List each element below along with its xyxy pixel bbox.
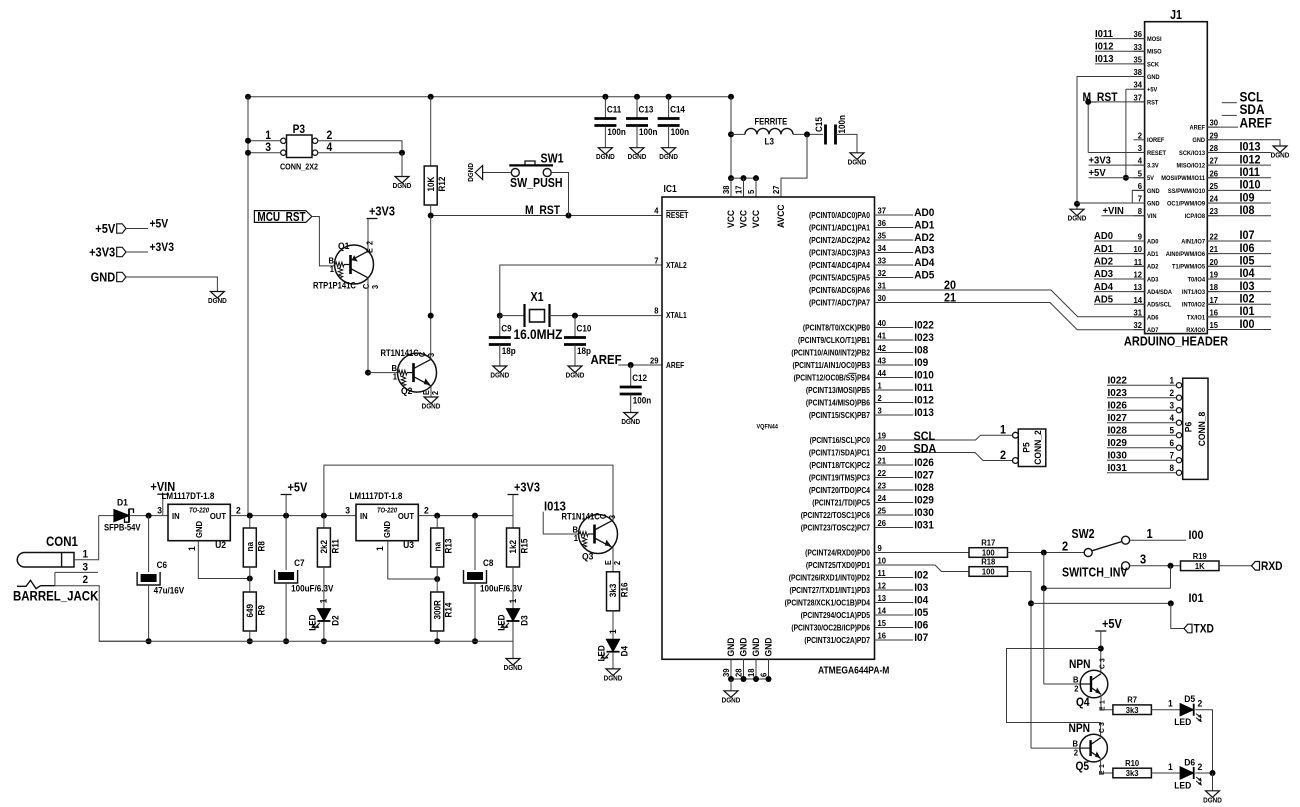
svg-text:Q5: Q5 <box>1076 760 1090 773</box>
svg-text:C15: C15 <box>814 117 825 132</box>
svg-text:na: na <box>245 542 256 552</box>
svg-text:AD3: AD3 <box>914 244 934 256</box>
svg-text:8: 8 <box>654 306 659 315</box>
IC U1 IC1 ATMEGA644PA-M body <box>662 197 875 659</box>
svg-text:I022: I022 <box>1108 375 1128 386</box>
svg-text:32: 32 <box>878 269 887 278</box>
wire net I01 <box>1207 316 1271 318</box>
svg-text:I028: I028 <box>1108 425 1128 436</box>
svg-text:D2: D2 <box>330 615 341 626</box>
wire Q2 base <box>368 372 398 374</box>
svg-text:AD0: AD0 <box>1147 238 1159 246</box>
LED D6 <box>1180 767 1193 779</box>
svg-text:10K: 10K <box>425 176 436 192</box>
svg-text:16.0MHZ: 16.0MHZ <box>514 326 563 342</box>
wire P3 pin1 <box>248 140 281 142</box>
svg-text:I07: I07 <box>914 632 928 644</box>
svg-text:16: 16 <box>878 631 887 640</box>
wire D3 to ground <box>512 622 514 659</box>
wire net I012 <box>1207 164 1271 166</box>
svg-text:MCU_RST: MCU_RST <box>257 211 305 224</box>
svg-text:(PCINT26/RXD1/INT0)PD2: (PCINT26/RXD1/INT0)PD2 <box>789 573 870 583</box>
svg-text:I02: I02 <box>1240 293 1255 306</box>
svg-text:X1: X1 <box>531 290 544 304</box>
svg-text:I03: I03 <box>914 582 928 594</box>
wire net AD0 <box>1094 240 1145 242</box>
svg-text:CONN_2: CONN_2 <box>1033 430 1044 465</box>
wire L3 to C15 <box>793 133 823 135</box>
svg-text:7: 7 <box>1169 450 1174 461</box>
svg-text:NPN: NPN <box>1069 722 1091 735</box>
svg-text:(PCINT28/XCK1/OC1B)PD4: (PCINT28/XCK1/OC1B)PD4 <box>785 598 871 608</box>
junction <box>472 638 478 644</box>
svg-text:ATMEGA644PA-M: ATMEGA644PA-M <box>818 665 890 676</box>
connector J1 ARDUINO_HEADER body <box>1145 22 1208 334</box>
svg-text:ARDUINO_HEADER: ARDUINO_HEADER <box>1124 334 1228 349</box>
svg-text:SW_PUSH: SW_PUSH <box>510 176 563 190</box>
wire <box>126 228 148 230</box>
svg-text:(PCINT21/TDI)PC5: (PCINT21/TDI)PC5 <box>812 498 870 508</box>
svg-text:DGND: DGND <box>1068 215 1087 223</box>
svg-text:GND: GND <box>1147 74 1160 82</box>
svg-text:I030: I030 <box>1108 450 1128 461</box>
svg-text:CONN_8: CONN_8 <box>1197 412 1208 447</box>
svg-text:DGND: DGND <box>596 154 615 162</box>
wire to ground <box>1212 773 1214 791</box>
svg-text:AD6: AD6 <box>1147 314 1159 322</box>
svg-text:I03: I03 <box>1240 280 1255 293</box>
svg-text:I026: I026 <box>914 457 934 469</box>
capacitor C11 100n <box>602 94 608 100</box>
wire AVCC feed <box>781 134 807 197</box>
svg-text:300R: 300R <box>432 600 443 619</box>
svg-text:AD0: AD0 <box>914 207 934 219</box>
svg-text:RXD: RXD <box>1261 560 1283 573</box>
svg-text:OUT: OUT <box>210 511 226 520</box>
capacitor C10 18p <box>574 316 576 338</box>
svg-text:AD5: AD5 <box>1094 294 1114 305</box>
svg-text:2: 2 <box>431 391 440 395</box>
junction <box>1041 585 1047 591</box>
svg-text:R14: R14 <box>443 602 454 617</box>
svg-text:GND: GND <box>383 521 392 538</box>
svg-text:29: 29 <box>1210 131 1219 140</box>
svg-text:(PCINT14/MISO)PB6: (PCINT14/MISO)PB6 <box>806 398 870 408</box>
svg-text:AD5: AD5 <box>914 269 934 281</box>
svg-text:22: 22 <box>878 469 887 478</box>
svg-text:IOREF: IOREF <box>1147 137 1165 145</box>
svg-text:25: 25 <box>1210 182 1219 191</box>
wire net I04 <box>1207 278 1271 280</box>
svg-text:35: 35 <box>1133 55 1142 64</box>
svg-text:30: 30 <box>878 294 887 303</box>
resistor R16 3k3 <box>607 572 620 611</box>
wire top rail <box>248 96 731 98</box>
svg-text:Q1: Q1 <box>338 241 349 252</box>
svg-text:8: 8 <box>1169 463 1174 474</box>
svg-text:5: 5 <box>1169 425 1174 436</box>
wire Q4 base <box>1044 683 1080 685</box>
svg-text:3: 3 <box>427 353 436 357</box>
svg-text:24: 24 <box>878 494 887 503</box>
wire Q2 emitter to ground <box>430 386 432 397</box>
svg-text:R16: R16 <box>619 582 630 597</box>
wire +5V stem <box>285 495 287 516</box>
wire <box>436 567 438 579</box>
wire net I012 <box>1095 50 1145 52</box>
regulator U2 LM1117DT-1.8 <box>168 504 230 540</box>
svg-text:2: 2 <box>236 505 241 516</box>
wire D1 to U2 <box>129 515 168 517</box>
wire net I023 <box>1107 397 1176 399</box>
svg-text:28: 28 <box>734 668 743 677</box>
svg-text:4: 4 <box>654 206 659 215</box>
junction <box>1210 770 1216 776</box>
wire <box>875 327 914 329</box>
svg-text:1: 1 <box>187 546 198 551</box>
svg-text:(PCINT4/ADC4)PA4: (PCINT4/ADC4)PA4 <box>809 261 871 271</box>
wire net I026 <box>1107 409 1176 411</box>
wire SW1 right to M_RST <box>551 173 568 216</box>
svg-text:(PCINT9/CLKO/T1)PB1: (PCINT9/CLKO/T1)PB1 <box>798 336 870 346</box>
svg-text:VCC: VCC <box>751 210 762 228</box>
resistor R17 100 <box>969 548 1008 558</box>
svg-text:3.3V: 3.3V <box>1147 162 1159 170</box>
svg-text:1: 1 <box>330 265 335 274</box>
svg-text:VIN: VIN <box>1147 213 1157 221</box>
svg-text:15: 15 <box>878 619 887 628</box>
svg-text:38: 38 <box>1133 68 1142 77</box>
svg-text:I029: I029 <box>1108 438 1128 449</box>
junction <box>245 138 251 144</box>
svg-text:I026: I026 <box>1108 400 1128 411</box>
svg-text:649: 649 <box>245 604 256 618</box>
wire R12 bottom <box>430 205 432 216</box>
svg-text:GND: GND <box>1147 200 1160 208</box>
junction <box>365 370 371 376</box>
wire D6 cathode <box>1195 772 1212 774</box>
svg-text:RESET: RESET <box>666 211 689 221</box>
svg-text:SWITCH_INV: SWITCH_INV <box>1062 566 1128 580</box>
svg-text:2: 2 <box>82 575 88 587</box>
svg-text:DGND: DGND <box>468 163 476 182</box>
wire net AD2 <box>1094 265 1145 267</box>
svg-text:23: 23 <box>1210 207 1219 216</box>
junction <box>146 638 152 644</box>
stub SDA <box>1222 114 1237 116</box>
svg-text:3k3: 3k3 <box>1126 706 1139 715</box>
svg-text:DGND: DGND <box>848 159 867 167</box>
svg-text:IC1: IC1 <box>664 183 677 194</box>
wire vertical +5V column <box>247 97 249 516</box>
svg-text:MISO: MISO <box>1147 48 1162 56</box>
svg-text:J1: J1 <box>1170 8 1182 22</box>
ground DGND C15 <box>850 153 864 160</box>
svg-text:R7: R7 <box>1127 695 1137 704</box>
wire net I09 <box>1207 202 1271 204</box>
svg-text:(PCINT6/ADC6)PA6: (PCINT6/ADC6)PA6 <box>809 286 870 296</box>
svg-text:+5V: +5V <box>288 481 308 495</box>
svg-text:DGND: DGND <box>1203 797 1222 805</box>
svg-text:1: 1 <box>607 629 618 634</box>
wire IO1 net <box>1031 602 1171 604</box>
svg-text:34: 34 <box>878 244 887 253</box>
svg-text:LED: LED <box>307 615 318 631</box>
svg-text:RESET: RESET <box>1147 149 1166 157</box>
svg-text:AD1: AD1 <box>1147 251 1159 259</box>
junction <box>1085 99 1091 105</box>
svg-text:1: 1 <box>318 598 329 603</box>
wire net 21 PA7 to J1 pin32 <box>875 303 1145 330</box>
svg-text:U3: U3 <box>403 540 414 551</box>
svg-text:33: 33 <box>1133 42 1142 51</box>
wire C6 to rail <box>148 585 150 641</box>
svg-text:C13: C13 <box>639 104 654 115</box>
wire <box>875 527 914 529</box>
wire SDA PC1 to P5 pin2 <box>875 453 1013 461</box>
svg-text:25: 25 <box>878 506 887 515</box>
svg-text:LM1117DT-1.8: LM1117DT-1.8 <box>350 490 403 501</box>
svg-text:AREF: AREF <box>1189 124 1205 132</box>
svg-text:19: 19 <box>878 431 887 440</box>
svg-text:T0/IO4: T0/IO4 <box>1188 276 1206 284</box>
svg-text:DGND: DGND <box>422 403 441 411</box>
svg-text:RX/IO0: RX/IO0 <box>1186 327 1205 335</box>
svg-text:+5V: +5V <box>1102 617 1122 631</box>
crystal X1 16.0MHZ <box>523 304 525 327</box>
svg-text:17: 17 <box>734 185 743 194</box>
svg-text:DGND: DGND <box>393 183 412 191</box>
svg-text:1: 1 <box>1147 526 1153 541</box>
svg-text:C9: C9 <box>501 323 512 334</box>
svg-text:(PCINT3/ADC3)PA3: (PCINT3/ADC3)PA3 <box>809 248 870 258</box>
svg-text:3: 3 <box>1140 552 1146 567</box>
svg-text:3: 3 <box>1138 144 1143 153</box>
wire D2 to rail <box>323 622 325 642</box>
svg-text:3: 3 <box>345 505 350 516</box>
svg-text:I010: I010 <box>1240 179 1261 192</box>
svg-text:C12: C12 <box>632 373 647 384</box>
junction <box>245 94 251 100</box>
wire net I05 <box>1207 265 1271 267</box>
wire <box>630 394 632 413</box>
svg-text:1: 1 <box>1098 700 1106 704</box>
svg-text:100n: 100n <box>639 127 657 138</box>
wire SW2 pin3 to R19 <box>1130 565 1181 567</box>
svg-text:I028: I028 <box>914 482 934 494</box>
power +3V3 flag Q1 <box>367 218 378 220</box>
svg-text:3: 3 <box>157 505 162 516</box>
svg-text:OUT: OUT <box>398 511 414 520</box>
ground DGND C14 <box>662 148 676 155</box>
svg-text:1: 1 <box>82 549 88 561</box>
wire <box>126 251 148 253</box>
svg-text:TO-220: TO-220 <box>189 507 209 515</box>
wire +5V bypass to Q5 collector <box>1007 649 1101 736</box>
svg-text:LM1117DT-1.8: LM1117DT-1.8 <box>162 490 215 501</box>
wire <box>875 414 914 416</box>
wire R11 to D2 <box>323 567 325 609</box>
wire <box>875 589 914 591</box>
wire net I010 <box>1207 189 1271 191</box>
junction <box>434 638 440 644</box>
junction <box>245 150 251 156</box>
P6 pin 8 <box>1176 470 1181 475</box>
svg-text:FERRITE: FERRITE <box>755 116 788 127</box>
svg-text:2: 2 <box>1169 388 1174 399</box>
svg-text:19: 19 <box>1210 270 1219 279</box>
junction <box>741 175 747 181</box>
svg-text:DGND: DGND <box>504 665 523 673</box>
svg-text:16: 16 <box>1210 308 1219 317</box>
svg-text:11: 11 <box>1134 257 1143 266</box>
wire pin29 GND to DGND <box>1207 140 1280 146</box>
ground DGND Q2 <box>424 397 438 404</box>
wire net I00 <box>1207 329 1271 331</box>
svg-text:7: 7 <box>1138 194 1143 203</box>
svg-text:100n: 100n <box>837 115 848 133</box>
diode D1 SFPB-54V <box>99 515 114 517</box>
svg-text:AVCC: AVCC <box>776 204 787 228</box>
svg-text:(PCINT16/SCL)PC0: (PCINT16/SCL)PC0 <box>810 436 870 446</box>
wire net I027 <box>1107 422 1176 424</box>
svg-text:(PCINT1/ADC1)PA1: (PCINT1/ADC1)PA1 <box>809 223 870 233</box>
junction <box>283 638 289 644</box>
svg-text:12: 12 <box>1133 270 1142 279</box>
svg-text:100n: 100n <box>633 395 651 406</box>
svg-text:(PCINT15/SCK)PB7: (PCINT15/SCK)PB7 <box>809 411 870 421</box>
svg-text:13: 13 <box>1133 283 1142 292</box>
svg-text:R12: R12 <box>437 176 448 191</box>
svg-text:4: 4 <box>1169 413 1174 424</box>
svg-text:1: 1 <box>375 546 386 551</box>
svg-text:38: 38 <box>722 185 731 194</box>
svg-text:I05: I05 <box>1240 255 1256 268</box>
svg-text:D6: D6 <box>1184 757 1195 768</box>
wire net I07 <box>1207 240 1271 242</box>
wire R12 column to Q2 collector <box>430 216 432 361</box>
junction <box>628 362 634 368</box>
svg-text:GND: GND <box>1147 187 1160 195</box>
svg-text:+5V: +5V <box>1089 168 1107 179</box>
svg-text:E: E <box>365 248 374 253</box>
svg-text:DGND: DGND <box>208 298 227 306</box>
svg-text:(PCINT0/ADC0)PA0: (PCINT0/ADC0)PA0 <box>809 211 870 221</box>
resistor R8 na <box>249 516 251 528</box>
wire +5V branch to Q3 collector <box>324 465 613 523</box>
svg-text:DGND: DGND <box>722 697 741 705</box>
wire Q4 emitter to R7 <box>1101 695 1113 710</box>
junction <box>434 576 440 582</box>
wire Q1 collector to Q2 base <box>367 278 369 373</box>
svg-text:SCK: SCK <box>1147 61 1159 69</box>
resistor R9 649 <box>249 579 251 593</box>
svg-text:1: 1 <box>1168 761 1173 772</box>
svg-text:+5V: +5V <box>150 218 169 231</box>
power +3V3 flag <box>508 494 519 496</box>
ground DGND left <box>210 292 224 299</box>
wire VCC drop <box>730 97 732 178</box>
wire <box>875 614 914 616</box>
svg-text:Q2: Q2 <box>401 386 412 397</box>
svg-text:I012: I012 <box>914 394 934 406</box>
svg-text:DGND: DGND <box>659 154 678 162</box>
svg-text:2: 2 <box>1198 761 1203 772</box>
svg-text:+3V3: +3V3 <box>150 242 174 255</box>
svg-text:I06: I06 <box>1240 242 1255 255</box>
wire VCC pin stubs <box>730 178 732 197</box>
svg-text:I012: I012 <box>1240 154 1261 167</box>
svg-text:30: 30 <box>1210 118 1219 127</box>
svg-text:34: 34 <box>1133 80 1142 89</box>
wire GND pin stubs <box>730 659 732 679</box>
transistor Q5 NPN <box>1080 734 1108 762</box>
svg-text:AD2: AD2 <box>1147 263 1159 271</box>
svg-text:(PCINT31/OC2A)PD7: (PCINT31/OC2A)PD7 <box>804 636 870 646</box>
svg-text:MOSI/PWM/IO11: MOSI/PWM/IO11 <box>1161 175 1205 183</box>
svg-text:I01: I01 <box>1189 593 1205 606</box>
svg-text:SCK/IO13: SCK/IO13 <box>1179 149 1205 157</box>
svg-text:R9: R9 <box>256 605 267 616</box>
wire +VIN to pin8 <box>1101 215 1144 217</box>
svg-text:C10: C10 <box>577 323 592 334</box>
svg-text:I00: I00 <box>1240 318 1255 331</box>
svg-text:+3V3: +3V3 <box>89 245 115 260</box>
svg-text:31: 31 <box>878 281 887 290</box>
svg-text:AD4: AD4 <box>1094 282 1114 293</box>
capacitor C13 100n <box>634 94 640 100</box>
svg-text:(PCINT11/AIN1/OC0)PB3: (PCINT11/AIN1/OC0)PB3 <box>792 361 870 371</box>
svg-text:R17: R17 <box>981 538 995 547</box>
wire <box>875 264 914 266</box>
svg-text:GND: GND <box>751 637 762 656</box>
svg-text:(PCINT294/OC1A)PD5: (PCINT294/OC1A)PD5 <box>801 611 870 621</box>
wire <box>499 345 501 367</box>
wire pin6 pin7 GND tie <box>1132 190 1144 203</box>
svg-text:AREF: AREF <box>1240 115 1272 131</box>
svg-text:9: 9 <box>878 544 883 553</box>
svg-text:5V: 5V <box>1147 175 1155 183</box>
wire <box>875 602 914 604</box>
switch SW2 SWITCH_INV <box>1084 549 1092 557</box>
svg-text:35: 35 <box>878 231 887 240</box>
wire to TXD port <box>1171 603 1184 628</box>
wire MCU_RST to Q1 base <box>312 217 335 266</box>
junction <box>434 513 440 519</box>
svg-text:15: 15 <box>1210 321 1219 330</box>
svg-text:6: 6 <box>759 672 768 677</box>
junction <box>1168 563 1174 569</box>
svg-text:1k2: 1k2 <box>508 540 519 554</box>
svg-text:8: 8 <box>1138 207 1143 216</box>
svg-text:17: 17 <box>1210 295 1219 304</box>
svg-text:32: 32 <box>1133 321 1142 330</box>
svg-text:1: 1 <box>507 598 518 603</box>
svg-text:I06: I06 <box>914 619 928 631</box>
svg-text:27: 27 <box>1210 156 1219 165</box>
svg-text:(PCINT25/TXD0)PD1: (PCINT25/TXD0)PD1 <box>806 561 870 571</box>
wire cross link <box>1044 587 1171 589</box>
svg-text:AD3: AD3 <box>1094 269 1114 280</box>
svg-text:20: 20 <box>1210 257 1219 266</box>
svg-text:100: 100 <box>982 567 995 576</box>
wire Q3 emitter to R16 <box>612 547 614 572</box>
resistor R18 100 <box>969 567 1008 577</box>
svg-text:+3V3: +3V3 <box>369 205 395 219</box>
wire R16 to D4 <box>612 611 614 640</box>
wire U2 GND pin <box>198 541 250 579</box>
resistor R7 3k3 <box>1113 705 1152 715</box>
